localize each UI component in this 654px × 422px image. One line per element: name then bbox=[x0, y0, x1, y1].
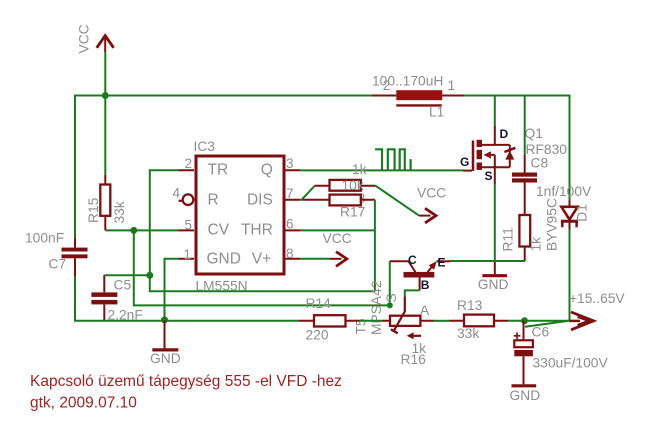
wire vcc stem bbox=[104, 52, 106, 96]
svg-text:E: E bbox=[438, 256, 446, 270]
svg-text:BYV95C: BYV95C bbox=[545, 198, 560, 251]
wire R14 to R16 bbox=[359, 320, 382, 322]
pin name GND bbox=[207, 250, 241, 267]
svg-text:2: 2 bbox=[383, 78, 391, 93]
svg-text:GND: GND bbox=[478, 277, 509, 292]
svg-text:1: 1 bbox=[183, 247, 191, 262]
label R18 partially hidden bbox=[340, 191, 366, 206]
svg-text:VCC: VCC bbox=[323, 231, 352, 246]
label LM555N bbox=[196, 279, 248, 294]
svg-text:C7: C7 bbox=[49, 257, 67, 272]
vcc arrow symbol at pin 8 bbox=[330, 252, 347, 267]
svg-text:33k: 33k bbox=[457, 326, 479, 341]
svg-text:THR: THR bbox=[241, 221, 273, 238]
label R13 bbox=[457, 298, 483, 313]
label 100nF of C7 bbox=[25, 231, 64, 246]
label R17 bbox=[340, 204, 365, 219]
label VCC at pin 8 bbox=[323, 231, 352, 246]
svg-text:R14: R14 bbox=[306, 296, 332, 311]
pin number 4 bbox=[172, 186, 180, 201]
label C of T5 bbox=[408, 253, 417, 267]
wire gnd bus bottom-left bbox=[75, 277, 299, 321]
label C6 bbox=[532, 325, 550, 340]
svg-text:MPSA42: MPSA42 bbox=[369, 281, 384, 335]
wire gnd bus middle bbox=[450, 260, 525, 262]
label 330uF/100V of C6 bbox=[533, 356, 609, 371]
potentiometer R16 bbox=[382, 296, 434, 333]
svg-text:C5: C5 bbox=[114, 278, 132, 293]
label T5 bbox=[354, 318, 369, 334]
svg-text:CV: CV bbox=[208, 221, 230, 238]
op-amp IC3 box (LM555N) bbox=[179, 156, 301, 274]
label G of mosfet bbox=[460, 155, 469, 169]
svg-text:D: D bbox=[500, 127, 509, 141]
wire R18 to vcc arrow diagonal bbox=[376, 186, 420, 216]
inductor L1 bbox=[372, 90, 464, 105]
wire V+ pin8 bbox=[300, 258, 330, 260]
wire C5 to TR net bbox=[104, 274, 150, 276]
label C8 name bbox=[531, 155, 549, 170]
junction gnd bus bbox=[161, 316, 168, 323]
label L1 value bbox=[372, 73, 443, 88]
transistor Q1 mosfet bbox=[463, 126, 515, 184]
label 2.2nF of C5 bbox=[108, 307, 143, 322]
svg-text:TR: TR bbox=[208, 162, 229, 179]
svg-text:220: 220 bbox=[306, 327, 329, 342]
wire rail to C8 bbox=[524, 96, 526, 155]
ground symbol right bbox=[512, 384, 537, 387]
vcc label top-left bbox=[77, 24, 92, 53]
label R16 bbox=[401, 352, 427, 367]
pin name Q bbox=[261, 162, 273, 179]
label IC3 bbox=[194, 139, 216, 154]
wire top rail right of L1 bbox=[464, 96, 570, 201]
label BYV95C of D1 bbox=[545, 198, 560, 251]
svg-text:1: 1 bbox=[448, 78, 456, 93]
label R14 bbox=[306, 296, 332, 311]
svg-text:GND: GND bbox=[207, 250, 241, 267]
transistor T5 MPSA42 bbox=[390, 261, 450, 290]
arrow annotation of R16 bbox=[407, 332, 421, 339]
svg-text:IC3: IC3 bbox=[194, 139, 216, 154]
resistor R15 bbox=[100, 175, 110, 230]
label D1 bbox=[575, 204, 590, 222]
label E of T5 bbox=[438, 256, 446, 270]
svg-text:A: A bbox=[420, 303, 430, 318]
label Q1 bbox=[525, 126, 543, 141]
label A node bbox=[420, 303, 430, 318]
label VCC near R18 arrow bbox=[417, 186, 446, 201]
capacitor C6 polarized bbox=[514, 321, 533, 385]
title text line 2 bbox=[30, 394, 137, 411]
pin number 1 of L1 bbox=[448, 78, 456, 93]
resistor R11 bbox=[519, 215, 530, 261]
junction output C6 bbox=[521, 317, 528, 324]
vcc supply symbol top-left bbox=[97, 36, 114, 52]
svg-text:D1: D1 bbox=[575, 204, 590, 222]
pin number 8 bbox=[286, 246, 294, 261]
label 1k of R11 bbox=[529, 237, 544, 252]
resistor R13 bbox=[450, 315, 509, 327]
diode D1 bbox=[561, 201, 578, 230]
pin number 2 of L1 bbox=[383, 78, 391, 93]
svg-text:C8: C8 bbox=[531, 155, 549, 170]
pin name THR bbox=[241, 221, 273, 238]
svg-text:7: 7 bbox=[286, 186, 294, 201]
svg-text:1nf/100V: 1nf/100V bbox=[536, 184, 592, 199]
label RF830 bbox=[526, 142, 568, 157]
svg-text:VCC: VCC bbox=[417, 186, 446, 201]
svg-text:G: G bbox=[460, 155, 469, 169]
svg-text:8: 8 bbox=[286, 246, 294, 261]
pulse waveform symbol bbox=[375, 149, 411, 170]
svg-text:3: 3 bbox=[286, 156, 294, 171]
label 33k of R13 bbox=[457, 326, 479, 341]
svg-text:LM555N: LM555N bbox=[196, 279, 248, 294]
label S wiper pin bbox=[384, 293, 399, 302]
label 10k of R18 overlapping bbox=[342, 178, 364, 193]
svg-text:DIS: DIS bbox=[247, 191, 273, 208]
svg-text:100nF: 100nF bbox=[25, 231, 64, 246]
junction vcc bbox=[102, 92, 109, 99]
label 1nf/100V of C8 bbox=[536, 184, 592, 199]
label 1k of R16 bbox=[412, 341, 427, 356]
resistor R17 bbox=[303, 195, 375, 206]
svg-text:B: B bbox=[421, 278, 430, 292]
svg-text:R17: R17 bbox=[340, 204, 365, 219]
label GND middle bbox=[478, 277, 509, 292]
label L1 name bbox=[429, 104, 444, 119]
resistor R18 bbox=[315, 180, 376, 191]
pin name DIS bbox=[247, 191, 273, 208]
svg-text:R: R bbox=[208, 191, 219, 208]
pin number 7 bbox=[286, 186, 294, 201]
capacitor C5 bbox=[91, 275, 117, 321]
svg-text:Q1: Q1 bbox=[525, 126, 543, 141]
svg-text:1k: 1k bbox=[352, 162, 367, 177]
svg-text:R11: R11 bbox=[501, 227, 516, 251]
wire vcc to R15 bbox=[104, 96, 106, 176]
svg-text:5: 5 bbox=[184, 217, 192, 232]
pin name CV bbox=[208, 221, 230, 238]
label MPSA42 bbox=[369, 281, 384, 335]
svg-text:Q: Q bbox=[261, 162, 273, 179]
svg-text:33k: 33k bbox=[112, 201, 127, 223]
wire output node bbox=[508, 321, 570, 327]
svg-text:R13: R13 bbox=[457, 298, 483, 313]
svg-text:330uF/100V: 330uF/100V bbox=[533, 356, 609, 371]
output arrow +15..65V bbox=[570, 312, 594, 330]
pin number 1 bbox=[183, 247, 191, 262]
label D of mosfet bbox=[500, 127, 509, 141]
svg-text:VCC: VCC bbox=[77, 24, 92, 53]
wire Q output to gate bbox=[300, 169, 463, 171]
svg-text:Kapcsoló üzemű tápegység 555 -: Kapcsoló üzemű tápegység 555 -el VFD -he… bbox=[30, 373, 342, 390]
resistor R14 bbox=[299, 315, 359, 326]
svg-text:2: 2 bbox=[184, 156, 192, 171]
vcc arrow symbol right of R18 bbox=[419, 208, 436, 223]
label R15 bbox=[86, 197, 101, 223]
svg-text:S: S bbox=[485, 169, 493, 183]
label GND right bbox=[510, 388, 541, 403]
wire THR net bbox=[300, 200, 375, 291]
junction CV-collector bbox=[387, 302, 393, 308]
label GND left bbox=[150, 351, 181, 366]
svg-text:S: S bbox=[384, 293, 399, 302]
svg-text:gtk, 2009.07.10: gtk, 2009.07.10 bbox=[30, 394, 137, 411]
pin name TR bbox=[208, 162, 229, 179]
pin name V+ bbox=[252, 250, 271, 267]
wire source to gnd bus bbox=[494, 184, 496, 261]
svg-text:C: C bbox=[408, 253, 417, 267]
wire TR net bbox=[150, 170, 375, 291]
svg-text:+15..65V: +15..65V bbox=[569, 291, 625, 306]
label C5 bbox=[114, 278, 132, 293]
pin number 3 bbox=[286, 156, 294, 171]
svg-text:R16: R16 bbox=[401, 352, 427, 367]
capacitor C8 bbox=[512, 154, 537, 215]
pin name R bbox=[208, 191, 219, 208]
wire GND pin1 bbox=[165, 259, 179, 320]
pin 4 inverted reset pin bbox=[179, 194, 194, 205]
wire R16 to R13 bbox=[434, 320, 450, 322]
junction TR-C5 bbox=[146, 272, 153, 279]
wire base to wiper bbox=[405, 290, 420, 296]
svg-text:V+: V+ bbox=[252, 250, 271, 267]
pin number 2 bbox=[184, 156, 192, 171]
label B of T5 bbox=[421, 278, 430, 292]
label 1k on Q line bbox=[352, 162, 367, 177]
svg-text:1k: 1k bbox=[529, 237, 544, 252]
wire DIS pin stubs bbox=[300, 186, 315, 200]
label S of mosfet bbox=[485, 169, 493, 183]
label 220 of R14 bbox=[306, 327, 329, 342]
pin number 6 bbox=[286, 216, 294, 231]
svg-text:GND: GND bbox=[510, 388, 541, 403]
svg-text:GND: GND bbox=[150, 351, 181, 366]
label 33k of R15 bbox=[112, 201, 127, 223]
svg-text:4: 4 bbox=[172, 186, 180, 201]
pin number 5 bbox=[184, 217, 192, 232]
junction CV bbox=[130, 227, 137, 234]
wire drain to rail bbox=[494, 96, 496, 127]
label R11 bbox=[501, 227, 516, 251]
svg-text:C6: C6 bbox=[532, 325, 550, 340]
title text line 1 bbox=[30, 373, 342, 390]
wire top rail left bbox=[75, 96, 372, 239]
svg-text:6: 6 bbox=[286, 216, 294, 231]
label +15..65V bbox=[569, 291, 625, 306]
wire CV net bbox=[105, 230, 390, 305]
ground symbol left bbox=[152, 320, 178, 350]
wire D1 to output bbox=[569, 230, 571, 321]
svg-text:L1: L1 bbox=[429, 104, 444, 119]
svg-text:R15: R15 bbox=[86, 197, 101, 223]
label C7 bbox=[49, 257, 67, 272]
capacitor C7 bbox=[62, 238, 88, 277]
ground symbol middle bbox=[482, 261, 507, 276]
